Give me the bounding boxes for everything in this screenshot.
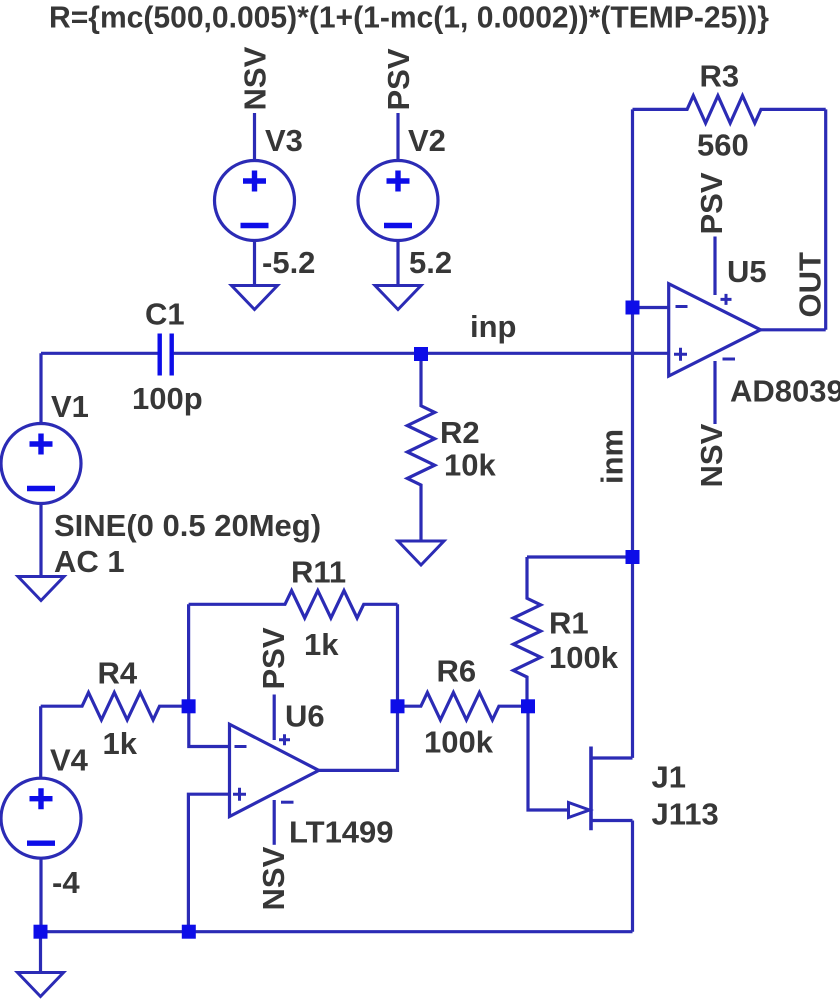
ground bbox=[375, 286, 421, 310]
wire bbox=[188, 794, 229, 932]
wire bbox=[631, 308, 634, 558]
resistor R11 bbox=[189, 591, 398, 618]
junction bbox=[521, 699, 535, 713]
junction bbox=[626, 301, 640, 315]
wire bbox=[824, 109, 827, 329]
wire bbox=[713, 361, 716, 424]
junction bbox=[414, 347, 428, 361]
capacitor C1 bbox=[160, 334, 172, 376]
wire bbox=[631, 821, 634, 932]
svg-text:J113: J113 bbox=[652, 797, 719, 832]
svg-text:PSV: PSV bbox=[381, 48, 416, 110]
svg-text:R1: R1 bbox=[549, 606, 589, 641]
wire bbox=[273, 800, 276, 845]
svg-text:R3: R3 bbox=[700, 59, 740, 94]
svg-text:V2: V2 bbox=[408, 123, 446, 158]
svg-text:-4: -4 bbox=[52, 865, 80, 900]
wire bbox=[174, 352, 669, 355]
svg-text:LT1499: LT1499 bbox=[289, 815, 394, 850]
svg-text:560: 560 bbox=[697, 128, 749, 163]
jfet J1 bbox=[569, 747, 633, 831]
wire bbox=[39, 858, 42, 931]
junction bbox=[626, 550, 640, 564]
wire bbox=[189, 706, 230, 746]
svg-text:PSV: PSV bbox=[256, 627, 291, 689]
svg-text:NSV: NSV bbox=[694, 423, 729, 487]
svg-text:R6: R6 bbox=[437, 654, 477, 689]
svg-text:U5: U5 bbox=[727, 254, 767, 289]
voltage source V1 bbox=[1, 424, 81, 504]
svg-text:inm: inm bbox=[595, 429, 630, 484]
wire bbox=[396, 241, 399, 287]
wire bbox=[187, 604, 190, 706]
wire bbox=[39, 504, 42, 578]
svg-text:100p: 100p bbox=[132, 381, 203, 416]
junction bbox=[34, 925, 48, 939]
svg-text:10k: 10k bbox=[444, 448, 496, 483]
svg-text:100k: 100k bbox=[549, 640, 619, 675]
svg-text:V4: V4 bbox=[50, 743, 89, 778]
svg-text:PSV: PSV bbox=[694, 172, 729, 234]
ground bbox=[18, 973, 64, 997]
svg-text:-5.2: -5.2 bbox=[262, 245, 315, 280]
resistor R6 bbox=[398, 693, 529, 720]
wire bbox=[631, 557, 634, 758]
voltage source V3 bbox=[215, 161, 295, 241]
svg-text:R2: R2 bbox=[440, 415, 480, 450]
svg-text:1k: 1k bbox=[103, 726, 138, 761]
svg-text:J1: J1 bbox=[652, 760, 686, 795]
svg-text:R11: R11 bbox=[291, 555, 346, 590]
voltage source V4 bbox=[1, 778, 81, 858]
svg-text:V1: V1 bbox=[51, 389, 89, 424]
wire bbox=[39, 353, 42, 423]
svg-text:SINE(0 0.5 20Meg): SINE(0 0.5 20Meg) bbox=[54, 508, 321, 543]
wire bbox=[713, 237, 716, 296]
resistor R2 bbox=[407, 354, 434, 541]
op-amp U6 bbox=[230, 724, 319, 816]
junction bbox=[182, 699, 196, 713]
svg-text:NSV: NSV bbox=[238, 46, 273, 110]
svg-text:inp: inp bbox=[470, 309, 517, 344]
svg-text:5.2: 5.2 bbox=[409, 245, 452, 280]
svg-text:OUT: OUT bbox=[792, 252, 827, 318]
wire bbox=[319, 706, 398, 770]
svg-text:NSV: NSV bbox=[256, 846, 291, 910]
wire bbox=[41, 930, 633, 933]
svg-text:R={mc(500,0.005)*(1+(1-mc(1, 0: R={mc(500,0.005)*(1+(1-mc(1, 0.0002))*(T… bbox=[49, 0, 769, 35]
svg-text:V3: V3 bbox=[265, 123, 303, 158]
wire bbox=[631, 109, 634, 307]
svg-text:AC 1: AC 1 bbox=[54, 544, 125, 579]
wire bbox=[396, 113, 399, 161]
svg-text:100k: 100k bbox=[424, 725, 494, 760]
wire bbox=[761, 328, 826, 331]
wire bbox=[253, 241, 256, 287]
wire bbox=[528, 706, 569, 810]
resistor R3 bbox=[633, 96, 826, 123]
svg-text:C1: C1 bbox=[145, 297, 185, 332]
svg-text:1k: 1k bbox=[304, 627, 339, 662]
ground bbox=[232, 286, 278, 310]
svg-text:U6: U6 bbox=[285, 699, 325, 734]
op-amp U5 bbox=[669, 284, 761, 376]
wire bbox=[41, 352, 158, 355]
wire bbox=[39, 706, 42, 778]
junction bbox=[182, 925, 196, 939]
ground bbox=[398, 541, 444, 565]
resistor R1 bbox=[513, 557, 540, 707]
wire bbox=[253, 113, 256, 161]
ground bbox=[18, 577, 64, 601]
wire bbox=[527, 555, 633, 558]
wire bbox=[633, 306, 669, 309]
voltage source V2 bbox=[358, 161, 438, 241]
junction bbox=[391, 699, 405, 713]
wire bbox=[273, 695, 276, 741]
wire bbox=[396, 604, 399, 706]
resistor R4 bbox=[41, 693, 189, 720]
wire bbox=[39, 932, 42, 973]
svg-text:R4: R4 bbox=[98, 656, 138, 691]
svg-text:AD8039: AD8039 bbox=[730, 374, 840, 409]
